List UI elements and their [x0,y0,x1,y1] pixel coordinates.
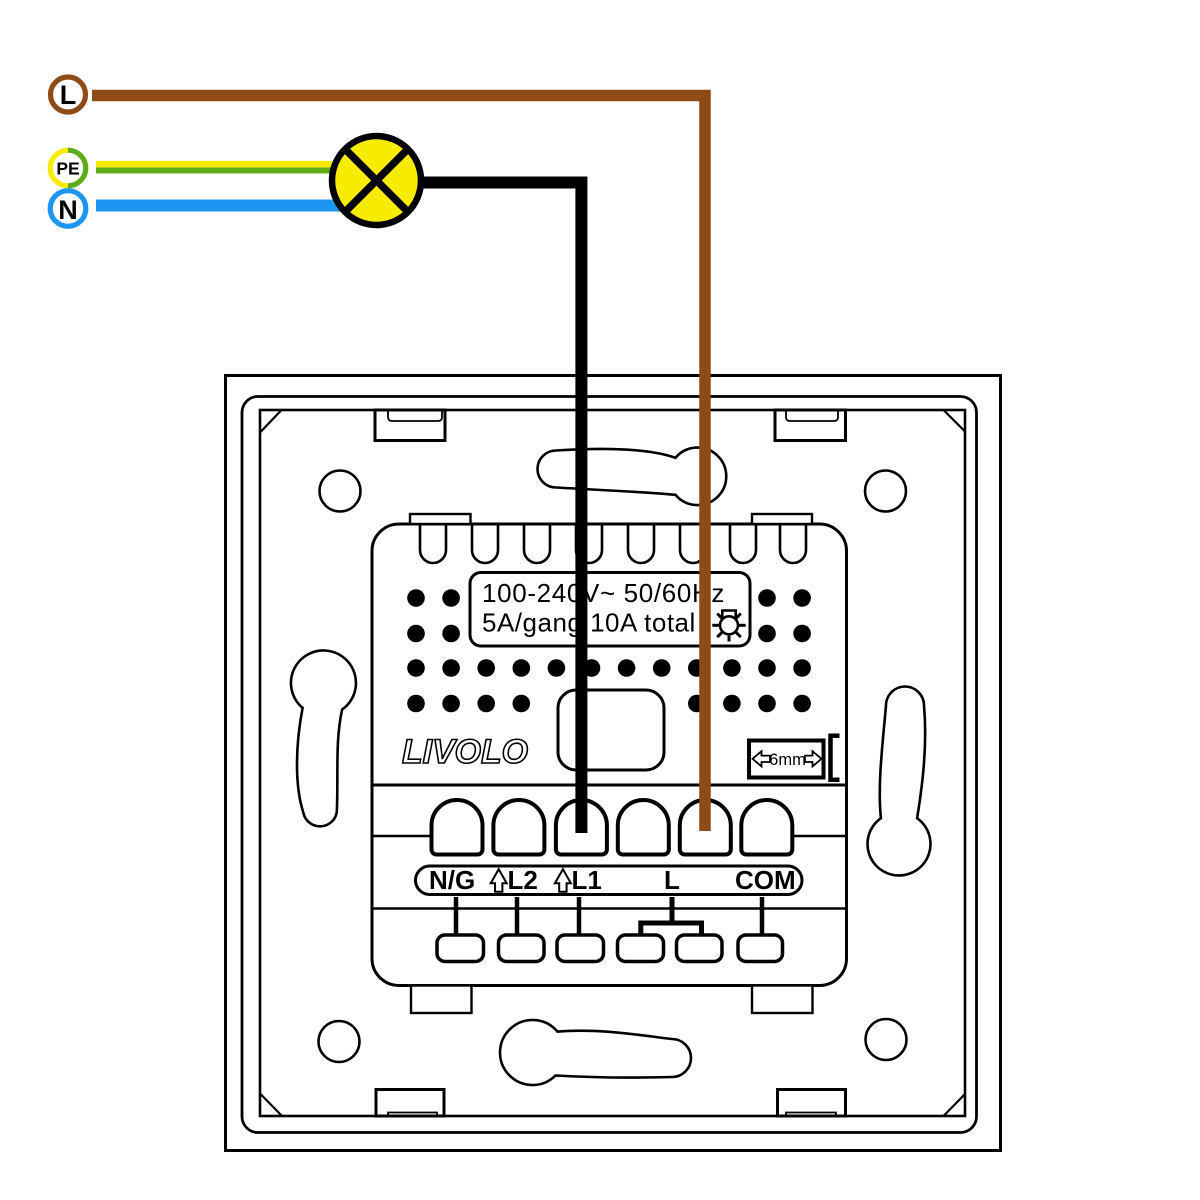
connector branch L [641,897,702,935]
svg-text:L: L [664,865,680,895]
plate top tab left [375,410,445,441]
switch mounting plate [260,410,965,1116]
module separator line upper [373,784,847,787]
screw hole bottom-right [866,1019,907,1060]
node PE ring yellow half [50,150,68,186]
node L ring [51,77,86,112]
connector line COM [760,897,765,935]
svg-text:L1: L1 [572,865,602,895]
svg-text:L: L [60,80,77,110]
earth arrow L2 [491,869,507,892]
terminal opening 4 [618,800,669,854]
top mounting slot [538,448,727,505]
lamp E1 cross [346,150,408,212]
terminal pad 4 [618,935,664,962]
connector line N/G [454,897,459,935]
svg-text:COM: COM [735,865,796,895]
plate top tab right inner notch [786,410,838,421]
6mm strip gauge box [749,741,824,778]
plate bottom tab left inner notch [388,1113,437,1117]
center cable opening [558,690,664,770]
ventilation dot grid [407,589,811,712]
bottom mounting slot [500,1020,691,1085]
terminal pad 1 [437,935,484,962]
screw hole top-left [320,471,361,512]
svg-text:PE: PE [56,158,79,178]
terminal pad 3 [557,935,604,962]
terminal opening 2 [493,800,544,855]
terminal opening 1 [432,800,483,854]
plate top tab left inner notch [388,410,442,421]
terminal mid line left [373,835,432,838]
module top tab left [410,514,471,524]
module clip prongs [420,524,806,563]
svg-text:100-240V~ 50/60Hz: 100-240V~ 50/60Hz [482,578,725,608]
switch back panel outer frame [226,376,1001,1151]
6mm left arrow [753,751,771,766]
svg-text:5A/gang 10A total: 5A/gang 10A total [482,608,696,638]
plate bottom tab left [376,1090,444,1117]
terminal label strip [416,866,803,895]
terminal opening 3 [556,800,607,854]
plate bottom tab right inner notch [786,1113,836,1117]
svg-text:N/G: N/G [429,865,475,895]
node N ring [50,191,86,227]
module separator line lower [373,907,847,910]
wire L brown [92,96,705,832]
screw hole bottom-left [319,1021,360,1062]
terminal opening 6 [741,800,792,854]
terminal mid line right [793,835,847,838]
connector line L1 [577,897,582,935]
terminal pad 5 [677,935,723,962]
wire N blue [96,200,341,212]
right mounting slot [868,687,931,876]
plate bottom tab right [778,1090,846,1117]
plate top tab right [775,410,846,441]
connector line L2 [515,897,520,935]
terminal opening 5 [680,800,731,854]
earth arrow L1 [555,869,571,892]
lamp load icon [712,611,745,642]
terminal pad 2 [499,935,545,962]
plate corner chamfer bottom-right [944,1094,966,1116]
wire PE yellow part [96,161,336,168]
plate corner chamfer bottom-left [260,1094,282,1117]
module bottom tab right [752,986,813,1014]
svg-text:L2: L2 [508,865,538,895]
switch back panel rounded frame [242,397,977,1133]
plate corner chamfer top-right [944,410,966,432]
strip gauge bracket [831,736,840,780]
screw hole top-right [865,471,906,512]
node PE ring green half [68,150,86,186]
lamp E1 [332,136,421,225]
module top tab right [752,514,812,524]
svg-text:LIVOLO: LIVOLO [402,733,528,771]
switch module body [372,524,847,986]
terminal pad 6 [738,935,783,962]
ratings text box [470,573,750,647]
module bottom tab left [411,986,472,1014]
wire PE green part [96,168,336,174]
wire lamp to L1 black [415,183,581,834]
svg-text:6mm: 6mm [769,751,806,769]
svg-text:N: N [58,195,78,225]
6mm right arrow [805,751,822,766]
plate corner chamfer top-left [260,410,282,433]
left mounting slot [291,650,356,826]
